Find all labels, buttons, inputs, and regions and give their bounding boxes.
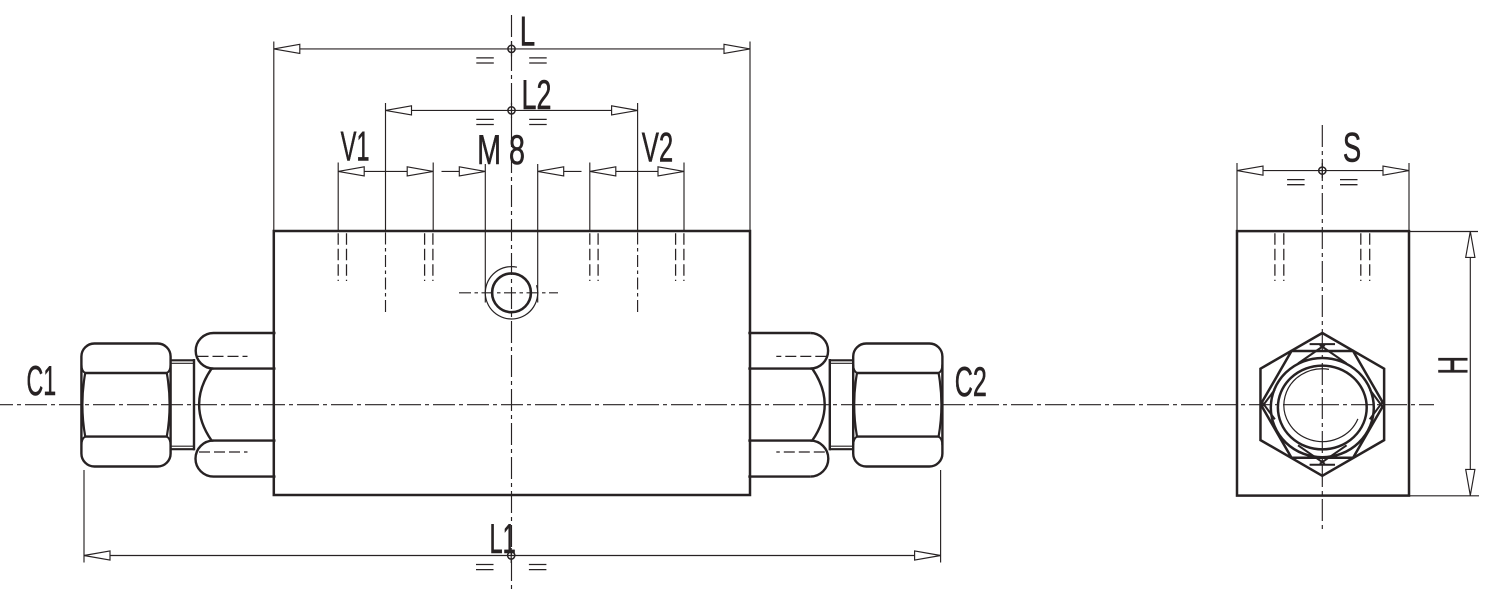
M8 hole horizontal centerline xyxy=(459,292,558,294)
dimension H line xyxy=(1469,231,1471,495)
side view hidden hole pair 2 xyxy=(1361,233,1370,281)
dimension L1 line xyxy=(84,555,941,557)
dimension L1 arrows xyxy=(84,551,941,560)
right vertex chamfer arcs xyxy=(1370,390,1383,420)
left vertex chamfer arcs xyxy=(1262,390,1275,420)
label L2 xyxy=(522,71,552,118)
dimension M8 arrows xyxy=(459,167,563,176)
dimension V1 extension lines xyxy=(338,163,433,232)
dimension V2 line xyxy=(590,170,684,172)
side view block outline xyxy=(1237,231,1409,496)
label H xyxy=(1429,356,1476,375)
dimension L2 extension lines xyxy=(386,103,638,231)
svg-text:M 8: M 8 xyxy=(477,126,525,173)
dimension S center mark xyxy=(1319,163,1326,178)
vertical centerline of front view xyxy=(511,15,513,591)
hole-group centerline left (dash-dot) xyxy=(385,233,387,313)
dimension L symmetry marks xyxy=(476,58,546,63)
label C1 (port) xyxy=(27,357,57,404)
svg-text:V2: V2 xyxy=(642,124,674,171)
valve body block (front view) xyxy=(274,231,750,495)
dimension L2 symmetry marks xyxy=(476,119,546,124)
hole-group centerline right (dash-dot) xyxy=(637,233,639,313)
svg-text:V1: V1 xyxy=(341,123,370,170)
dimension L arrows xyxy=(274,44,750,53)
dimension L line xyxy=(274,48,750,50)
hidden hole pair 1 (dashed) xyxy=(338,233,346,281)
horizontal centerline (axis through C1-C2 and side view) xyxy=(0,404,1434,406)
dimension V1 arrows xyxy=(338,167,433,176)
label C2 (port) xyxy=(955,358,987,405)
dimension L extension lines xyxy=(274,42,750,232)
M8 threaded hole circle xyxy=(492,273,531,312)
bottom vertex chamfer flat xyxy=(1310,464,1335,466)
dimension V1 line xyxy=(338,170,433,172)
dimension M8 extension lines xyxy=(485,164,537,303)
hidden hole pair 4 (dashed) xyxy=(676,233,684,281)
dimension H extension lines xyxy=(1409,232,1479,496)
bottom vertex chamfer arcs xyxy=(1298,445,1347,464)
svg-text:S: S xyxy=(1343,124,1361,171)
dimension L1 extension lines xyxy=(84,470,941,563)
dimension L center mark xyxy=(508,41,515,56)
top vertex chamfer arcs xyxy=(1298,345,1347,364)
hidden hole pair 2 (dashed) xyxy=(425,233,433,281)
dimension S arrows xyxy=(1237,166,1409,175)
hex plug front-face hexagon (point-side) xyxy=(1261,351,1384,458)
side view vertical centerline xyxy=(1321,125,1323,532)
label S xyxy=(1343,124,1361,171)
svg-text:L: L xyxy=(520,7,535,54)
label L1 xyxy=(490,515,516,562)
svg-text:C1: C1 xyxy=(27,357,57,404)
svg-text:L1: L1 xyxy=(490,515,516,562)
port thread arc (thin 3/4 circle) xyxy=(1284,369,1358,442)
label M 8 xyxy=(477,126,525,173)
M8 thread major-diameter arc xyxy=(485,267,537,319)
hidden hole pair 3 (dashed) xyxy=(590,233,598,281)
dimension M8 leader lines xyxy=(442,170,582,172)
plug bore circle (inner) xyxy=(1278,366,1367,450)
svg-text:L2: L2 xyxy=(522,71,552,118)
dimension H arrows xyxy=(1466,231,1475,495)
dimension S extension lines xyxy=(1237,163,1409,231)
hex plug outer hexagon (point-top) xyxy=(1260,333,1384,476)
dimension L2 line xyxy=(386,109,638,111)
dimension V2 arrows xyxy=(590,167,684,176)
dimension S symmetry marks xyxy=(1287,180,1357,185)
plug chamfer circle (outer) xyxy=(1271,358,1374,457)
svg-text:H: H xyxy=(1429,356,1476,375)
dimension S line xyxy=(1237,170,1409,172)
dimension L2 center mark xyxy=(508,103,515,118)
right port fitting (hex nuts C2 side) xyxy=(748,333,942,477)
left port fitting (hex nuts C1 side) xyxy=(81,333,275,477)
svg-text:C2: C2 xyxy=(955,358,987,405)
label V1 xyxy=(341,123,370,170)
dimension L1 symmetry marks xyxy=(476,565,546,570)
top vertex chamfer flat xyxy=(1310,343,1335,345)
dimension L2 arrows xyxy=(386,106,638,115)
label L xyxy=(520,7,535,54)
side view hidden hole pair 1 xyxy=(1275,233,1284,281)
label V2 xyxy=(642,124,674,171)
dimension L1 center mark xyxy=(508,548,515,563)
dimension V2 extension lines xyxy=(590,163,684,232)
